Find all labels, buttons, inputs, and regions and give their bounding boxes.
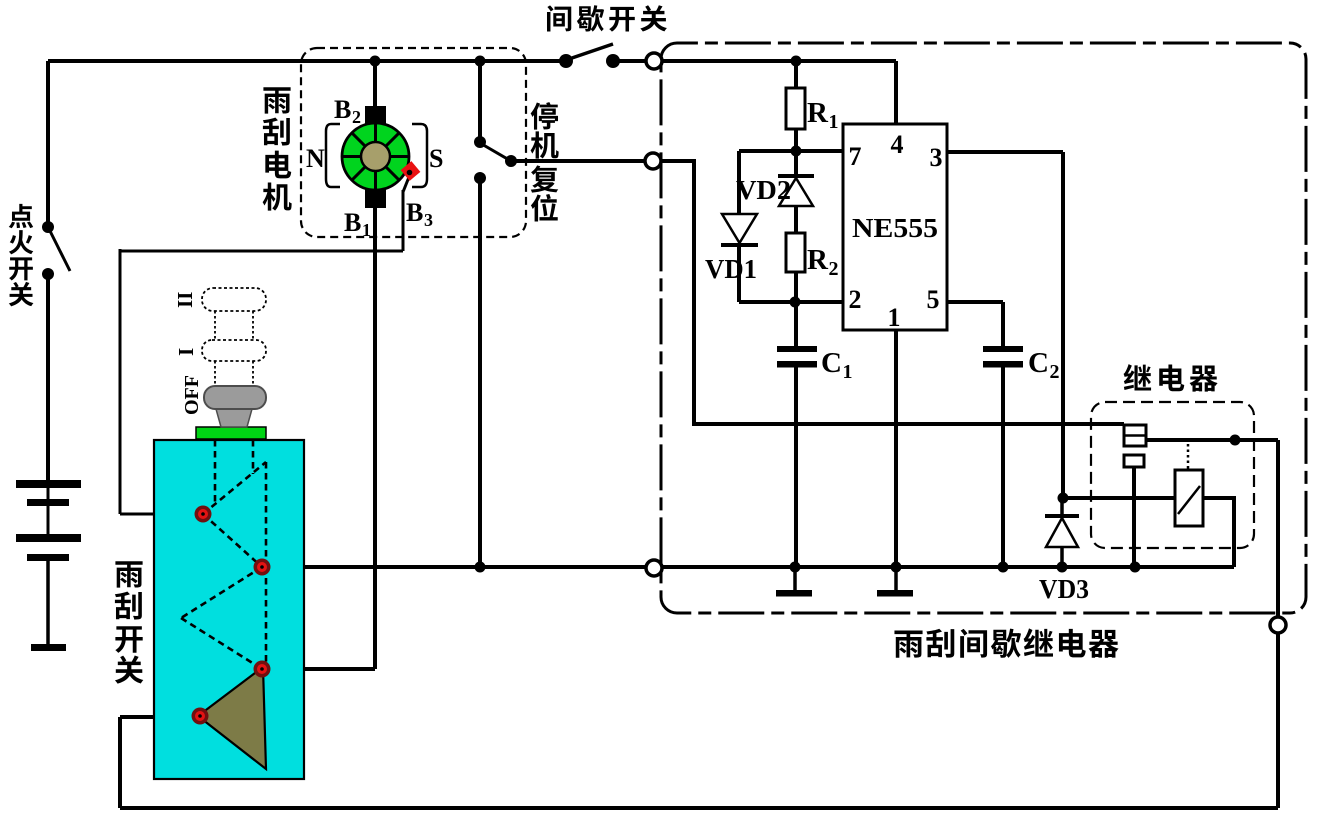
ignition switch upper contact [42,221,54,233]
svg-text:2: 2 [1050,361,1060,383]
wire pin2 [739,300,843,304]
intermittent switch right contact [606,54,620,68]
relay upper contact terminal [1124,425,1146,446]
wire bottom-left vertical [118,717,122,808]
capacitor C1 [777,346,817,352]
stop-reset pivot contact [505,155,517,167]
wiper arm ghost position OFF right edge [265,462,268,567]
svg-text:1: 1 [888,303,901,332]
wiper motor commutator spokes [342,123,409,190]
junction node bus / relay contact [1130,562,1141,573]
wire left vertical from top rail to ignition switch [46,61,50,227]
battery negative plate short [27,499,69,506]
wire top rail between intermittent switch and border ring [613,59,646,63]
junction node relay output [1230,435,1241,446]
wire VD2 to R2 [794,206,798,233]
junction node bus / pin1 ground [891,562,902,573]
ignition switch lever [48,227,70,271]
wire pin7 [739,149,843,153]
junction node bus / C2 [998,562,1009,573]
terminal ring output [1270,617,1286,633]
relay K1 dashed enclosure [1091,402,1254,548]
wire VD1 top lead [737,151,741,214]
op-amp/timer U1 NE555 body [843,124,947,330]
relay actuator dotted link [1187,444,1190,470]
capacitor C2 [983,346,1023,352]
wire pin1 to ground bus [894,330,898,567]
svg-text:2: 2 [829,258,839,280]
svg-text:1: 1 [829,111,839,133]
wire ground bus left of ring [262,565,646,569]
wire pin3 vertical to VD3 node [1061,152,1065,498]
wiper motor B1 brush [365,189,386,208]
wiper motor dashed enclosure [301,48,526,237]
stator pole bracket S [412,124,427,187]
wire top supply rail y=61 [48,59,566,63]
wire pin3 [947,150,1063,154]
wiper arm ghost position I right edge [265,567,268,669]
wire B3 horizontal y=251 [120,250,403,253]
svg-text:3: 3 [930,143,943,172]
svg-text:3: 3 [424,210,433,230]
wire R1 top lead [794,61,798,88]
junction node pin7/R1/VD2 [791,146,802,157]
junction node bus / stop-reset [475,562,486,573]
svg-text:NE555: NE555 [852,213,938,243]
svg-text:VD3: VD3 [1039,574,1089,604]
svg-text:4: 4 [891,130,904,159]
svg-text:S: S [429,144,443,173]
wire VD1 bottom lead [737,245,741,302]
wire R2 to pin2 node [794,272,798,302]
battery end terminal bar [31,644,66,651]
wiper switch body [154,440,304,779]
svg-text:N: N [306,144,325,173]
wire relay lower contact to bus [1132,466,1136,567]
svg-text:2: 2 [352,107,361,127]
wiper switch knob position I (ghost) [202,340,266,361]
junction node top rail / R1 [791,56,802,67]
wiper arm ghost position OFF lower edge [203,514,262,567]
wire to wiper switch OFF contact [120,513,197,516]
junction node bus / C1 ground [790,562,801,573]
text 点火开关 [9,204,34,306]
stator pole bracket N [326,124,340,187]
svg-text:VD2: VD2 [736,175,791,205]
wiper switch knob position II (ghost) [202,288,266,311]
wiper switch contact 2 [254,559,271,576]
battery link tick 2 [47,506,50,535]
wiper switch contact 1 [195,506,212,523]
junction node pin2/R2/C1 [790,297,801,308]
wire B2 brush to top rail [373,61,377,107]
wire VD3 node to relay coil [1063,496,1175,500]
wire ground bus inside module [662,565,1234,569]
wire VD2 top lead [794,151,798,176]
svg-text:5: 5 [927,285,940,314]
svg-text:B: B [344,208,361,237]
text 雨刮间歇继电器 [894,628,1118,658]
stop-reset upper contact [474,136,486,148]
junction node top rail / stop-reset [475,56,486,67]
wiper intermittent relay module dash-dot border [661,43,1306,613]
svg-text:R: R [807,244,829,276]
terminal ring ground bus [646,560,662,576]
intermittent switch left contact [559,54,573,68]
wiper motor core [361,142,390,171]
wire output vertical lower [1276,633,1280,808]
terminal ring top (power in) [646,53,662,69]
wire B3 vertical x=403 [402,190,405,251]
ground at pin1 branch [894,567,898,591]
wire output vertical upper [1276,440,1280,617]
wiper arm position II (solid) [198,667,266,769]
svg-text:R: R [807,97,829,129]
resistor R1 [786,88,805,129]
wire B3 diagonal [403,172,411,192]
battery positive plate long lower [16,534,81,542]
wire stop-reset switch upper branch [478,61,482,142]
wire pin5 to C2 [1001,302,1005,348]
knob ghost connector left [214,311,216,340]
svg-text:1: 1 [362,220,371,240]
svg-text:VD1: VD1 [705,254,757,284]
svg-text:B: B [334,95,351,124]
text 雨刮开关 [115,561,143,683]
wire pin2 node to C1 [794,302,798,348]
wire R1 bottom lead [794,129,798,152]
text 间歇开关 [547,5,667,31]
resistor R2 [786,233,805,272]
stop-reset lower contact [474,172,486,184]
svg-text:1: 1 [843,361,853,383]
knob ghost connector right [252,311,254,340]
svg-text:I: I [174,348,198,356]
wiper arm ghost position OFF upper edge [203,462,266,514]
svg-text:2: 2 [849,285,862,314]
wiper motor armature ring [342,123,409,190]
wire stop-reset inside module [662,161,1124,424]
junction node top rail / B2 [370,56,381,67]
terminal ring stop-reset [645,153,661,169]
wiper switch green collar [196,427,266,439]
wiper motor B3 brush (red) [401,161,421,181]
ground at C1 branch [793,567,797,591]
svg-text:7: 7 [849,142,862,171]
wire top rail inside module to pin4 corner [662,59,896,63]
wire ignition switch to battery [46,274,50,481]
wiper switch contact 3 [254,661,271,678]
wire stop-reset pivot to module ring [511,159,645,163]
wire relay upper contact to output [1146,438,1278,442]
battery bottom lead [46,561,50,645]
wiper switch knob stem [216,409,252,427]
wire C2 to ground bus [1001,365,1005,567]
intermittent switch lever [569,44,613,59]
svg-text:C: C [821,347,842,379]
svg-text:OFF: OFF [181,375,203,415]
wiper arm ghost stem right [252,440,255,474]
wire pin5 [947,300,1003,304]
wiper switch knob OFF position [204,386,266,409]
diode VD3 [1060,498,1064,516]
wiper motor B2 brush [365,106,386,125]
wire B1 brush down [373,207,377,669]
svg-text:B: B [406,198,423,227]
ignition switch lower contact [42,268,54,280]
wiper arm ghost position I lower edge [181,618,262,669]
text 雨刮电机 [263,87,292,210]
wire pin4 to top rail [894,61,898,124]
svg-text:C: C [1028,347,1049,379]
battery link tick 1 [47,488,50,500]
svg-text:II: II [173,292,197,308]
relay coil K1 [1175,470,1203,526]
wire coil right side [1203,498,1234,567]
wiper arm ghost stem left [214,440,217,505]
wire B1 to wiper switch contact II [262,667,375,671]
text 停机复位 [531,102,559,221]
junction node pin3/VD3/coil [1058,493,1069,504]
wiper switch contact 4 [192,708,209,725]
battery positive plate long top [16,480,81,488]
wire wiper arm contact to bottom rail [120,715,197,719]
text 继电器 [1124,364,1218,391]
wire C1 to ground bus [794,365,798,567]
wire x=120 vertical to OFF contact [119,249,122,514]
stop-reset lever [480,143,511,161]
wire stop-reset switch lower branch to bus [478,178,482,567]
diode VD2 [778,174,814,178]
wiper arm ghost position I upper edge [181,567,262,618]
junction node bus / VD3 [1057,562,1068,573]
battery negative plate short lower [27,554,69,561]
wire bottom return rail [120,806,1278,810]
diode VD1 [722,214,757,243]
relay lower contact terminal [1124,455,1144,467]
